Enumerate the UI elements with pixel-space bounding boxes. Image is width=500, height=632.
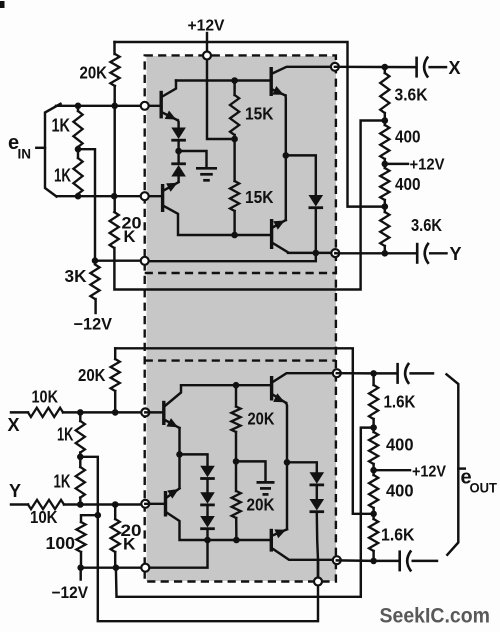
- node emitter junction (Q7/Q8): [284, 459, 291, 466]
- diode D3: [309, 195, 324, 208]
- node Y output on box edge: [331, 249, 339, 257]
- wire Q1 emitter to D1: [177, 120, 180, 127]
- wire Q6 base lead: [145, 503, 164, 505]
- transistor Q4 base bar: [270, 219, 273, 249]
- transistor Q6 collector: [167, 513, 271, 541]
- wire top rail (+12V feed around right): [115, 42, 385, 207]
- svg-text:Y: Y: [450, 244, 462, 264]
- dashed separator (bottom block top edge): [145, 359, 336, 361]
- wire Q3 emitter down: [284, 96, 287, 156]
- wire 100 tap: [81, 515, 98, 522]
- label Y: [450, 244, 462, 264]
- svg-text:1K: 1K: [52, 116, 71, 136]
- resistor 1K upper: [73, 106, 82, 149]
- wire 1K midpoint tap to deep rail: [80, 457, 318, 621]
- node -12V junction: [77, 564, 84, 571]
- transistor Q5 collector: [165, 385, 271, 406]
- resistor 15K lower: [230, 181, 239, 211]
- label 15K upper: [245, 104, 274, 124]
- label e OUT: [461, 467, 498, 496]
- label 400 upper (top): [395, 127, 421, 147]
- wire -12V rail into box: [145, 540, 207, 568]
- transistor Q8 collector: [272, 549, 336, 560]
- resistor 20K top-left: [110, 54, 119, 86]
- svg-text:20K: 20K: [78, 365, 106, 385]
- node 20K-bottom junction (box): [233, 537, 240, 544]
- svg-text:SeekIC.com: SeekIC.com: [380, 604, 491, 628]
- wire +12V stem: [206, 33, 208, 56]
- wire e OUT bottom after cap: [413, 560, 437, 562]
- label 1K (Y side): [54, 472, 71, 492]
- svg-text:3.6K: 3.6K: [395, 85, 428, 105]
- svg-text:15K: 15K: [245, 104, 274, 124]
- diode D4: [200, 466, 215, 479]
- label +12V (bottom chain): [412, 464, 446, 481]
- wire 15K chain top: [233, 81, 235, 96]
- label 20K mid-left: [122, 214, 142, 247]
- label -12V (top): [74, 316, 113, 334]
- node Y input junction: [77, 501, 84, 508]
- node emitter junction (Q3/Q4): [283, 152, 290, 159]
- dashed IC boundary box: [145, 55, 336, 581]
- wire Y output: [335, 252, 416, 255]
- transistor Q6 base bar: [164, 491, 167, 517]
- node 3K feed on box edge: [141, 257, 149, 265]
- svg-text:1.6K: 1.6K: [384, 392, 416, 412]
- resistor 10K (Y input): [28, 500, 64, 509]
- wire +12V tap stem (bottom): [374, 469, 410, 471]
- label 1.6K upper: [384, 392, 416, 412]
- wire e IN bottom lead: [57, 195, 162, 197]
- transistor Q5 emitter: [165, 418, 180, 428]
- wire left rail lower + bottom jog to right chain: [114, 121, 384, 290]
- label Y input: [9, 481, 21, 501]
- node 3K junction: [92, 257, 99, 264]
- node 1.6K/400 junction (bottom): [370, 424, 377, 431]
- resistor 1.6K lower: [369, 519, 378, 551]
- label 20K upper (box): [248, 409, 275, 429]
- scan corner mark: [0, 1, 5, 8]
- label 1.6K lower: [381, 525, 415, 545]
- label -12V (bottom): [52, 584, 89, 602]
- diode D1: [171, 128, 186, 141]
- wire 15K mid link: [233, 135, 235, 181]
- wire 20K chain bottom: [235, 518, 238, 540]
- wire 20K-mid leads: [114, 505, 116, 568]
- wire chain link c: [384, 200, 386, 212]
- node 100 tap junction: [95, 512, 102, 519]
- svg-text:Y: Y: [9, 481, 21, 501]
- node X input junction: [77, 409, 84, 416]
- diode D7: [310, 472, 325, 485]
- wire -12V stem (bottom): [79, 568, 81, 580]
- wire D2 to Q2 emitter: [177, 177, 179, 182]
- wire Q5 emitter chain to Q6: [178, 454, 180, 487]
- wire left rail middle: [113, 86, 115, 212]
- diode D6: [200, 516, 215, 529]
- transistor Q3 base bar: [270, 67, 273, 96]
- label 3.6K upper: [395, 85, 428, 105]
- svg-text:400: 400: [395, 127, 421, 147]
- resistor 400 lower (bottom): [369, 475, 378, 508]
- resistor 10K (X input): [28, 408, 63, 417]
- label 15K lower: [245, 187, 274, 207]
- svg-text:1.6K: 1.6K: [381, 525, 415, 545]
- capacitor e OUT top: [398, 363, 410, 384]
- label 400 upper (bottom): [386, 435, 414, 455]
- label e IN: [8, 132, 31, 162]
- wire Q7 emitter down: [285, 403, 288, 462]
- transistor Q1 collector: [162, 81, 176, 97]
- node 1K top junction: [75, 103, 82, 110]
- transistor Q7 base bar: [270, 376, 273, 401]
- resistor 1K (Y side): [76, 457, 85, 505]
- resistor 400 upper (bottom): [369, 432, 378, 464]
- wire 3K node to box: [95, 253, 316, 261]
- transistor Q8 base bar: [270, 529, 273, 552]
- node X output on box edge: [331, 63, 339, 71]
- label 400 lower (top): [395, 174, 421, 194]
- label 10K (X input): [32, 387, 59, 407]
- node 20K-mid top junction: [112, 501, 119, 508]
- node diode rail on box bottom edge: [314, 578, 322, 586]
- svg-text:10K: 10K: [32, 387, 59, 407]
- svg-text:−12V: −12V: [52, 584, 89, 602]
- wire D8 down to bottom edge: [317, 513, 318, 582]
- node 15K bottom junction: [231, 232, 238, 239]
- resistor 3K: [90, 265, 99, 300]
- label 10K (Y input): [30, 507, 58, 527]
- svg-text:1K: 1K: [54, 166, 71, 186]
- node Q5 base on box edge: [141, 408, 149, 416]
- node 1.6K bottom junction: [370, 558, 377, 565]
- wire 20K-left leads: [114, 348, 116, 412]
- capacitor Y output: [417, 243, 429, 264]
- node Q6 base on box edge: [141, 500, 149, 508]
- wire chain link a: [384, 113, 386, 125]
- resistor 1K lower: [73, 149, 82, 196]
- svg-text:20K: 20K: [248, 409, 275, 429]
- node +12V on box top edge: [203, 52, 211, 60]
- wire D5-D6: [206, 506, 208, 516]
- svg-text:400: 400: [395, 174, 421, 194]
- node 3.6K bottom junction: [382, 250, 389, 257]
- node diode mid: [175, 148, 182, 155]
- wire emitter junction to D7: [287, 462, 317, 472]
- wire X input: [11, 411, 28, 413]
- transistor Q6 emitter: [167, 488, 180, 498]
- node 1K midpoint: [75, 146, 82, 153]
- svg-text:K: K: [123, 535, 136, 554]
- transistor Q1 base bar: [159, 91, 162, 119]
- capacitor X output: [417, 57, 429, 78]
- wire Q1 collector to Q3 base: [176, 79, 271, 81]
- ground (top block): [179, 151, 217, 180]
- wire D3 to Y wire: [315, 209, 317, 253]
- label 1K (X side): [57, 425, 74, 445]
- wire Y input: [11, 503, 28, 505]
- svg-text:400: 400: [386, 481, 414, 501]
- node e OUT bottom on box edge: [333, 556, 341, 564]
- svg-text:15K: 15K: [245, 187, 274, 207]
- wire chain link b: [384, 159, 386, 168]
- node 1K bottom junction: [75, 193, 82, 200]
- wire +12V tap stem (top): [385, 163, 408, 165]
- wire Q5 base lead: [145, 411, 163, 413]
- wire e OUT top after cap: [411, 372, 433, 374]
- svg-text:10K: 10K: [30, 507, 58, 527]
- svg-text:3.6K: 3.6K: [411, 215, 442, 235]
- svg-text:20K: 20K: [80, 63, 108, 83]
- svg-text:1K: 1K: [54, 472, 71, 492]
- node 3.6K top junction: [382, 64, 389, 71]
- node rail junction e IN top: [111, 103, 118, 110]
- resistor 400 upper (top): [380, 125, 389, 159]
- label 400 lower (bottom): [386, 481, 414, 501]
- svg-text:IN: IN: [18, 146, 32, 162]
- svg-text:400: 400: [386, 435, 414, 455]
- watermark SeekIC.com: [380, 604, 491, 628]
- wire e OUT bottom: [337, 559, 399, 562]
- wire Q4 emitter up: [285, 155, 287, 220]
- node -12V rail on box edge: [141, 564, 149, 572]
- node 1K midpoint (bottom ckt): [77, 454, 84, 461]
- transistor Q3 emitter: [272, 86, 285, 96]
- wire emitter junction to D4: [180, 454, 208, 465]
- wire chain link d: [384, 246, 386, 253]
- shaded IC region: [147, 56, 337, 581]
- label +12V (top supply): [188, 18, 225, 35]
- wire X output after cap: [430, 66, 446, 68]
- wire +12V to 15K mid: [207, 56, 235, 140]
- node 1.6K top junction: [370, 370, 377, 377]
- e IN bracket: [36, 104, 60, 197]
- resistor 20K mid (bottom ckt): [111, 519, 120, 552]
- svg-text:+12V: +12V: [410, 157, 445, 174]
- wire chain link e: [372, 419, 374, 432]
- wire D6 to collector rail: [206, 530, 208, 540]
- wire left rail upper: [113, 42, 115, 54]
- wire 20K chain top: [235, 385, 237, 406]
- label X: [449, 58, 461, 78]
- wire Y output after cap: [430, 252, 446, 254]
- wire chain link f: [372, 464, 374, 475]
- wire chain link g: [372, 508, 374, 519]
- wire Q8 emitter up: [286, 462, 288, 529]
- e OUT bracket: [447, 374, 465, 555]
- wire 1K midpoint tap: [78, 149, 95, 261]
- wire 15K chain bottom: [233, 211, 235, 235]
- node 400/3.6K junction: [382, 203, 389, 210]
- resistor 3.6K upper: [380, 73, 389, 113]
- wire X output: [335, 66, 416, 69]
- wire e IN top lead: [56, 105, 160, 107]
- transistor Q2 base bar: [161, 184, 164, 212]
- node diode chain bottom junction: [204, 537, 211, 544]
- transistor Q5 base bar: [162, 401, 165, 425]
- resistor 1K (X side): [76, 412, 85, 456]
- resistor 3.6K lower: [380, 212, 389, 246]
- node 3.6K/400 junction: [382, 117, 389, 124]
- wire emitter junction to D3: [286, 155, 316, 195]
- resistor 400 lower (top): [380, 168, 389, 200]
- svg-text:X: X: [8, 415, 20, 435]
- node emitter/diode junction (Q5): [176, 451, 183, 458]
- label 1K upper: [52, 116, 71, 136]
- wire D4-D5: [206, 480, 208, 492]
- wire Y input to box: [64, 503, 145, 505]
- svg-text:100: 100: [46, 533, 76, 553]
- transistor Q7 emitter: [273, 393, 287, 403]
- node 20K-top junction (box): [233, 382, 240, 389]
- wire 20K mid link: [235, 432, 237, 491]
- svg-text:1K: 1K: [57, 425, 74, 445]
- transistor Q2 collector: [164, 206, 272, 235]
- transistor Q4 emitter: [273, 220, 286, 230]
- label 1K lower: [54, 166, 71, 186]
- label 100: [46, 533, 76, 553]
- node rail junction e IN bottom: [111, 193, 118, 200]
- resistor 15K upper: [230, 95, 239, 135]
- node e IN bottom on box edge: [141, 192, 149, 200]
- wire 20K-left top rail (to 400/1.6K junction): [115, 348, 373, 514]
- resistor 20K lower (box): [232, 491, 241, 518]
- wire D1 to mid node: [177, 142, 179, 152]
- diode D8: [310, 499, 325, 512]
- node +12V tap (top chain): [382, 161, 389, 168]
- svg-text:X: X: [449, 58, 461, 78]
- label 20K top-left: [80, 63, 108, 83]
- label 20K left (bottom ckt): [78, 365, 106, 385]
- transistor Q7 collector: [273, 373, 337, 382]
- wire mid node to D2: [177, 151, 179, 164]
- wire 1.6K chain top: [372, 373, 374, 385]
- node +12V tap (bottom chain): [370, 467, 377, 474]
- wire 3.6K chain: [384, 67, 386, 73]
- label 3.6K lower: [411, 215, 442, 235]
- capacitor e OUT bottom: [400, 550, 412, 571]
- transistor Q4 collector: [273, 243, 336, 253]
- svg-text:−12V: −12V: [74, 316, 113, 334]
- transistor Q2 emitter: [164, 182, 179, 192]
- wire X input to box: [63, 411, 145, 413]
- transistor Q3 collector: [272, 67, 335, 74]
- resistor 1.6K upper: [369, 385, 378, 419]
- node 20K mid junction (box): [233, 458, 240, 465]
- diode D5: [200, 492, 215, 505]
- label +12V (top chain): [410, 157, 445, 174]
- svg-text:+12V: +12V: [412, 464, 446, 481]
- ground (bottom block): [236, 461, 275, 494]
- label 20K mid (bottom ckt): [121, 521, 142, 554]
- node 20K-left bottom junction: [112, 409, 119, 416]
- diode D2: [171, 164, 186, 177]
- wire chain link h: [372, 551, 374, 561]
- dashed separator (top block bottom edge): [145, 272, 336, 274]
- svg-text:3K: 3K: [65, 266, 87, 286]
- wire deep rail 2 (20K bottom to 1.6K/400 junction): [116, 428, 374, 597]
- svg-text:K: K: [124, 227, 137, 246]
- label X input: [8, 415, 20, 435]
- wire 100 bottom lead: [80, 552, 82, 568]
- svg-text:20K: 20K: [247, 495, 275, 515]
- node e IN top on box edge: [141, 102, 149, 110]
- node 400/1.6K junction (bottom): [370, 511, 377, 518]
- resistor 100: [76, 522, 85, 552]
- node 15K top junction: [231, 77, 238, 84]
- node 20K-mid bottom junction: [113, 564, 120, 571]
- resistor 20K mid-left: [110, 212, 119, 248]
- node e OUT top on box edge: [333, 369, 341, 377]
- wire D7-D8: [316, 486, 318, 499]
- transistor Q1 emitter: [162, 111, 178, 121]
- transistor Q8 emitter: [272, 529, 287, 538]
- resistor 20K upper (box): [231, 407, 240, 433]
- svg-text:OUT: OUT: [470, 480, 498, 496]
- resistor 20K left (bottom ckt): [111, 359, 120, 391]
- wire 3K to -12V: [94, 299, 96, 313]
- wire Q5 emitter down: [178, 428, 180, 454]
- label 20K lower (box): [247, 495, 275, 515]
- node D3 bottom on Y wire: [313, 250, 320, 257]
- label 3K: [65, 266, 87, 286]
- wire e OUT top: [337, 372, 396, 375]
- wire -12V rail (bottom): [81, 566, 146, 568]
- node 15K mid junction: [231, 136, 238, 143]
